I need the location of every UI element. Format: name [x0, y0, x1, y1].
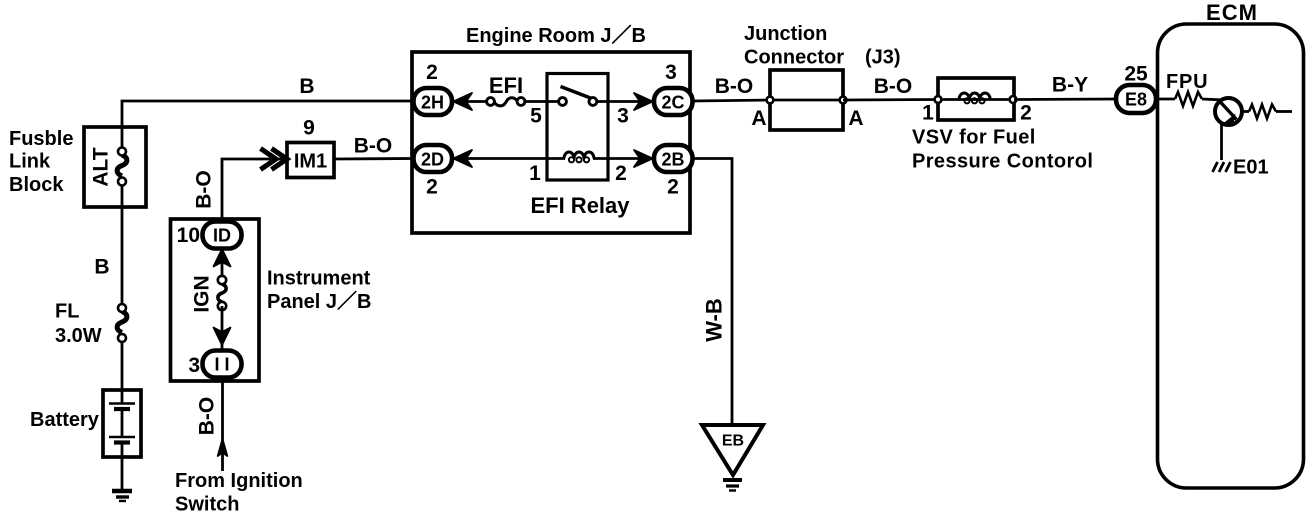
label EFI Relay: [530, 193, 630, 218]
fuse IGN: [218, 276, 226, 310]
label B-O rotated (ID wire): [193, 170, 216, 209]
junction connector box: [770, 70, 843, 130]
svg-text:Link: Link: [9, 151, 51, 173]
svg-text:EB: EB: [722, 433, 744, 450]
resistor FPU: [1156, 92, 1220, 106]
junction box IM1: [287, 143, 334, 178]
arrow into 2B: [634, 150, 653, 167]
svg-text:Block: Block: [9, 174, 64, 196]
wire through ALT box: [121, 128, 124, 308]
svg-text:I I: I I: [214, 355, 229, 375]
wire J3 to VSV: [843, 98, 938, 101]
label ALT rotated: [90, 147, 113, 186]
label Engine Room J/B: [466, 24, 646, 47]
arrow into 2D: [454, 150, 473, 167]
label 2 below 2D: [426, 176, 438, 199]
label From Ignition Switch: [175, 470, 303, 516]
wire through junction connector: [770, 99, 843, 102]
connector E8: [1116, 85, 1156, 113]
wire from ignition switch: [218, 378, 228, 471]
svg-text:3: 3: [617, 105, 629, 128]
battery cells: [109, 390, 135, 457]
wire FL to battery: [121, 342, 124, 390]
svg-text:E01: E01: [1233, 157, 1269, 179]
svg-text:B-Y: B-Y: [1052, 74, 1088, 97]
svg-text:IM1: IM1: [294, 151, 327, 173]
svg-text:2H: 2H: [421, 93, 444, 113]
wire 2D to relay coil: [452, 157, 565, 160]
svg-text:B-O: B-O: [874, 75, 913, 98]
engine room J/B box: [412, 52, 690, 233]
ECM box: [1158, 24, 1304, 488]
svg-text:ALT: ALT: [90, 147, 113, 186]
label W-B rotated: [701, 298, 726, 342]
label EFI: [489, 73, 523, 98]
label 2 above 2H: [426, 61, 438, 84]
svg-text:ECM: ECM: [1206, 0, 1258, 25]
svg-text:2C: 2C: [661, 93, 684, 113]
label FPU: [1166, 71, 1208, 93]
wire through VSV: [938, 98, 1014, 101]
connector ID: [203, 222, 242, 249]
svg-text:Instrument: Instrument: [267, 268, 371, 290]
label Battery: [30, 409, 100, 431]
label 1 (relay): [529, 162, 541, 185]
wire transistor to E01: [1220, 124, 1223, 160]
svg-text:B: B: [299, 75, 314, 98]
svg-text:3.0W: 3.0W: [55, 325, 102, 347]
connector 2H: [414, 88, 453, 115]
svg-text:FPU: FPU: [1166, 71, 1208, 93]
arrow into 2C: [634, 93, 653, 110]
label IGN rotated: [191, 275, 214, 312]
svg-text:1: 1: [922, 102, 934, 125]
svg-text:5: 5: [530, 105, 542, 128]
wire top bus B: [122, 101, 414, 128]
svg-text:10: 10: [177, 224, 200, 247]
fusible link block box: [84, 127, 146, 207]
svg-text:B-O: B-O: [193, 170, 216, 209]
connector 2C: [654, 88, 693, 115]
battery box: [103, 390, 141, 457]
svg-text:2: 2: [426, 61, 438, 84]
VSV coil: [959, 93, 990, 103]
node A left: [751, 97, 773, 130]
svg-text:FL: FL: [55, 301, 79, 323]
label 5: [530, 105, 542, 128]
svg-text:Pressure Contorol: Pressure Contorol: [912, 151, 1093, 173]
wire ID to IM1: [222, 159, 287, 222]
svg-text:2B: 2B: [661, 150, 684, 170]
label 2 (relay): [615, 162, 627, 185]
label FL 3.0W: [55, 301, 102, 348]
wire IM1 to 2D: [334, 157, 414, 160]
svg-text:From Ignition: From Ignition: [175, 470, 303, 492]
svg-text:9: 9: [303, 117, 315, 140]
svg-text:EFI: EFI: [489, 73, 523, 98]
relay coil: [564, 152, 594, 162]
svg-text:2D: 2D: [421, 150, 444, 170]
ground (battery): [112, 491, 132, 501]
svg-text:B: B: [94, 256, 109, 279]
svg-text:Battery: Battery: [30, 409, 100, 431]
svg-text:1: 1: [529, 162, 541, 185]
svg-text:3: 3: [188, 354, 200, 377]
svg-text:VSV for Fuel: VSV for Fuel: [912, 127, 1036, 149]
svg-text:Switch: Switch: [175, 494, 239, 516]
label Fusble Link Block: [9, 128, 73, 196]
label B (left wire): [94, 256, 109, 279]
wire battery to ground: [121, 457, 124, 489]
svg-text:E8: E8: [1125, 90, 1147, 110]
ground EB triangle: [702, 425, 763, 475]
svg-text:W-B: W-B: [701, 298, 726, 342]
fuse EFI: [487, 98, 525, 106]
label VSV for Fuel Pressure Contorol: [912, 127, 1093, 173]
label 3 (relay): [617, 105, 629, 128]
ground E01: [1213, 157, 1269, 179]
label Junction Connector (J3): [744, 23, 901, 69]
label 10: [177, 224, 200, 247]
svg-text:25: 25: [1124, 63, 1148, 86]
node 1 VSV: [922, 96, 941, 124]
label B-Y: [1052, 74, 1088, 97]
node A right: [840, 97, 864, 130]
label B-O (IM1 to 2D): [354, 135, 393, 158]
svg-text:A: A: [848, 107, 863, 130]
transistor: [1215, 98, 1249, 126]
label 3 above 2C: [665, 61, 677, 84]
svg-text:2: 2: [1020, 102, 1032, 125]
instrument panel J/B box: [171, 219, 260, 381]
svg-text:Engine Room J／B: Engine Room J／B: [466, 24, 646, 47]
label B-O (2C to J3): [715, 75, 754, 98]
svg-text:2: 2: [615, 162, 627, 185]
svg-text:A: A: [751, 107, 766, 130]
connector 11: [203, 351, 242, 378]
node 2 VSV: [1010, 96, 1032, 124]
label ECM: [1206, 0, 1258, 25]
svg-text:Fusble: Fusble: [9, 128, 73, 150]
svg-text:B-O: B-O: [354, 135, 393, 158]
svg-text:IGN: IGN: [191, 275, 214, 312]
arrow into 2H: [454, 93, 473, 110]
chevrons into IM1: [261, 149, 288, 170]
label 25: [1124, 63, 1148, 86]
label B-O (J3 to VSV): [874, 75, 913, 98]
wire 2B to EB: [692, 159, 732, 426]
wire 2H to relay: [452, 100, 547, 103]
connector 2D: [414, 145, 453, 172]
ground (EB): [723, 480, 742, 491]
resistor (collector): [1249, 105, 1292, 119]
wire relay to 2C: [608, 100, 654, 103]
label 3: [188, 354, 200, 377]
svg-text:ID: ID: [213, 226, 231, 246]
svg-text:2: 2: [426, 176, 438, 199]
label 9: [303, 117, 315, 140]
wire 2C to junction connector: [692, 100, 770, 101]
svg-text:B-O: B-O: [715, 75, 754, 98]
label Instrument Panel J/B: [267, 268, 371, 314]
svg-text:B-O: B-O: [196, 397, 219, 436]
fusible link FL: [117, 304, 127, 342]
wire VSV to E8: [1014, 98, 1118, 101]
wire coil to 2B: [593, 157, 654, 160]
arrow down to 11: [214, 306, 231, 351]
VSV box: [938, 78, 1014, 120]
svg-text:Connector(J3): Connector(J3): [744, 47, 901, 69]
arrow up to ID: [214, 249, 231, 280]
svg-text:Panel J／B: Panel J／B: [267, 290, 371, 313]
svg-text:Junction: Junction: [744, 23, 827, 45]
connector 2B: [654, 145, 693, 172]
label B-O rotated (ignition wire): [196, 397, 219, 436]
svg-text:EFI Relay: EFI Relay: [530, 193, 630, 218]
label 2 below 2B: [667, 176, 679, 199]
svg-text:3: 3: [665, 61, 677, 84]
label B (top bus): [299, 75, 314, 98]
relay box: [547, 74, 608, 181]
fusible link ALT: [117, 148, 127, 186]
relay switch: [547, 87, 608, 106]
svg-text:2: 2: [667, 176, 679, 199]
